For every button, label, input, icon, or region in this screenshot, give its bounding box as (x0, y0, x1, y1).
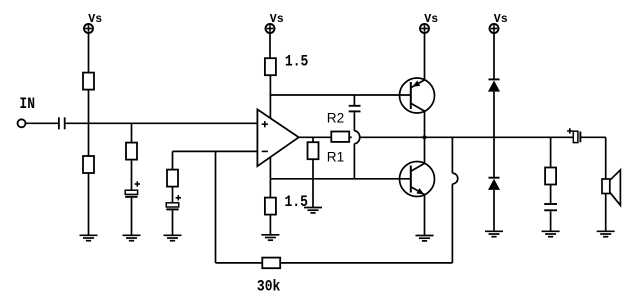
op-amp V- pin (269, 157, 271, 179)
wire (360, 136, 425, 138)
ground (597, 231, 615, 236)
wire (131, 160, 133, 191)
resistor (bias upper) (83, 73, 94, 90)
wire (312, 137, 314, 142)
wire (feedback bottom right) (280, 262, 452, 264)
ground (485, 231, 503, 236)
label 1.5 (285, 194, 308, 211)
diode D1 (to Vs) (488, 79, 500, 91)
wire (312, 159, 314, 207)
svg-text:Vs: Vs (88, 13, 102, 26)
resistor (feedback shunt) (167, 170, 178, 187)
wire (feedback right vertical bottom) (451, 184, 453, 263)
junction dot (output node) (422, 135, 426, 139)
wire (550, 211, 552, 231)
wire (26, 122, 58, 124)
wire (493, 190, 495, 231)
label 1.5 (285, 54, 308, 71)
wire (Q1 emitter to Vs) (424, 34, 426, 80)
svg-text:Vs: Vs (494, 13, 508, 26)
label R1 (327, 149, 344, 164)
label 30k (257, 278, 281, 295)
wire (353, 112, 355, 130)
wire (Q2 collector) (424, 137, 426, 163)
wire (feedback right vertical top) (451, 137, 453, 173)
wire (feedback bottom left) (216, 262, 263, 264)
wire (269, 34, 271, 59)
wire (op-amp output) (299, 136, 332, 138)
wire (581, 136, 606, 138)
wire (493, 92, 495, 178)
wire (550, 137, 552, 167)
ground (164, 235, 182, 240)
wire (172, 187, 174, 203)
transistor Q2 (NPN) (400, 162, 435, 197)
input terminal (18, 119, 26, 127)
resistor 1.5 (top supply) (265, 58, 276, 75)
ground (542, 231, 560, 236)
capacitor (compensation) (349, 106, 361, 112)
transistor Q1 (PNP) (400, 78, 435, 113)
wire (output line) (425, 136, 574, 138)
wire (feedback left vertical) (215, 151, 217, 263)
svg-text:IN: IN (19, 96, 35, 113)
resistor R1 (308, 142, 319, 159)
wire (349, 136, 352, 138)
wire (top base rail) (270, 94, 410, 96)
resistor 30k (feedback) (262, 258, 280, 269)
wire (269, 75, 271, 96)
wire (605, 194, 607, 232)
op-amp V+ pin (269, 95, 271, 118)
wire (88, 173, 90, 235)
wire (inverting input line) (173, 150, 258, 152)
label R2 (327, 110, 344, 125)
svg-text:Vs: Vs (424, 13, 438, 26)
svg-text:30k: 30k (257, 278, 281, 295)
ground (80, 235, 98, 240)
resistor 1.5 (bottom supply) (265, 198, 276, 215)
wire (172, 151, 174, 169)
op-amp - mark (262, 150, 268, 152)
ground (123, 235, 141, 240)
wire hop (vertical over horizontal) (354, 131, 359, 144)
wire (493, 34, 495, 80)
wire (Q2 emitter) (424, 195, 426, 236)
op-amp + mark (262, 121, 268, 127)
wire (353, 95, 355, 105)
power Vs (op-amp V+) (266, 24, 275, 33)
capacitor (Zobel) (544, 204, 557, 210)
capacitor C1 input coupling (59, 117, 65, 129)
wire (269, 179, 271, 198)
svg-text:Vs: Vs (270, 13, 284, 26)
wire (269, 215, 271, 235)
svg-text:R1: R1 (327, 149, 344, 164)
wire hop (feedback over base rail) (452, 173, 457, 184)
wire (88, 90, 90, 156)
svg-text:1.5: 1.5 (285, 194, 308, 211)
capacitor (input RC electrolytic) (125, 181, 140, 197)
wire (131, 123, 133, 142)
op-amp U1 (257, 109, 298, 166)
ground (416, 236, 434, 241)
node IN label (19, 96, 35, 113)
diode D2 (to ground) (488, 178, 500, 190)
svg-text:1.5: 1.5 (285, 54, 308, 71)
resistor (input RC) (126, 143, 137, 160)
wire (605, 137, 607, 179)
wire (131, 198, 133, 236)
speaker (602, 170, 620, 205)
wire (172, 210, 174, 235)
wire (bottom base rail) (270, 178, 410, 180)
resistor (Zobel) (545, 168, 556, 185)
wire (353, 144, 355, 179)
resistor R2 (331, 132, 349, 142)
wire (550, 185, 552, 204)
capacitor (feedback shunt electrolytic) (166, 195, 181, 209)
wire (66, 122, 258, 124)
ground (304, 208, 322, 213)
ground (261, 235, 279, 240)
power Vs (bias divider) (84, 24, 93, 33)
resistor (bias lower) (83, 156, 94, 173)
wire (88, 34, 90, 73)
wire (Q1 collector) (424, 111, 426, 137)
capacitor (output electrolytic) (567, 128, 580, 142)
power Vs (clamp diodes) (490, 24, 499, 33)
svg-text:R2: R2 (327, 110, 344, 125)
power Vs (output stage) (420, 24, 429, 33)
